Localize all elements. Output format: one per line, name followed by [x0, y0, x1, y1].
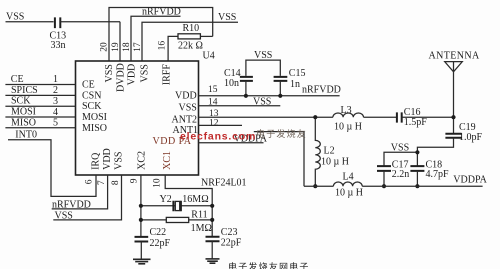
svg-text:10: 10 — [153, 178, 163, 188]
svg-text:nRFVDD: nRFVDD — [52, 199, 91, 210]
svg-text:3: 3 — [53, 96, 58, 107]
node VSS bracket over C17 C18 — [384, 143, 417, 166]
wire pin 14 VSS stub — [199, 105, 281, 107]
node MISO — [11, 117, 58, 128]
node VSS bottom label — [55, 210, 73, 221]
wire MOSI — [5, 116, 75, 118]
svg-text:L3: L3 — [341, 105, 352, 116]
svg-text:elecfans.com: elecfans.com — [180, 131, 256, 143]
svg-text:C15: C15 — [289, 68, 306, 79]
wire pin 19 vertical — [119, 22, 121, 61]
inductor L3 — [333, 105, 364, 133]
ground under C23 — [206, 259, 220, 263]
wire C15 to VDD row — [279, 81, 281, 96]
svg-text:1: 1 — [53, 74, 58, 85]
svg-text:L4: L4 — [343, 172, 354, 183]
svg-text:CE: CE — [11, 74, 24, 85]
svg-text:SCK: SCK — [82, 101, 102, 112]
node VDDPA label right — [453, 175, 487, 186]
svg-text:VSS: VSS — [179, 102, 197, 113]
wire VDDPA rail right of L4 — [362, 185, 482, 187]
capacitor C17 — [377, 159, 409, 180]
svg-text:33n: 33n — [51, 40, 66, 51]
node MOSI — [11, 107, 58, 118]
wire L3 to C16 — [364, 116, 397, 118]
svg-text:10 µ H: 10 µ H — [335, 187, 363, 198]
svg-text:6: 6 — [85, 179, 95, 184]
wire R11 row — [141, 219, 212, 221]
svg-text:VDD: VDD — [175, 90, 197, 101]
svg-text:C14: C14 — [224, 68, 241, 79]
crystal Y2 16MHz — [160, 194, 209, 211]
wire pin 7 to nRFVDD label — [52, 175, 108, 209]
svg-text:16: 16 — [158, 41, 168, 51]
svg-text:10 µ H: 10 µ H — [321, 157, 349, 168]
svg-text:5: 5 — [53, 118, 58, 129]
wire SCK — [5, 105, 75, 107]
op-amp U4 IC body NRF24L01 — [76, 51, 247, 189]
wire C16 to antenna line — [402, 116, 454, 118]
inductor L2 — [315, 117, 349, 186]
svg-text:VSS: VSS — [104, 64, 115, 82]
wire CE — [5, 84, 75, 86]
wire C22 to ground — [140, 242, 142, 259]
svg-text:L2: L2 — [324, 145, 335, 156]
junction dots Y2 row — [139, 204, 143, 208]
svg-text:XC1: XC1 — [162, 151, 173, 170]
svg-text:22pF: 22pF — [150, 238, 171, 249]
svg-text:INT0: INT0 — [15, 129, 37, 140]
svg-text:22k Ω: 22k Ω — [178, 41, 203, 52]
svg-text:ANTENNA: ANTENNA — [429, 50, 481, 61]
node VSS top-left label — [6, 12, 24, 23]
wire C14 to VDD row — [245, 81, 247, 96]
svg-text:U4: U4 — [203, 51, 215, 62]
node VSS bracket over C14 C15 — [246, 50, 280, 76]
svg-text:VSS: VSS — [114, 152, 125, 170]
wire pin 13 ANT2 row — [199, 116, 333, 118]
svg-text:CSN: CSN — [82, 90, 101, 101]
svg-text:VSS: VSS — [6, 12, 24, 23]
svg-text:MISO: MISO — [11, 117, 36, 128]
watermark elecfans.com red — [180, 131, 256, 143]
svg-text:15: 15 — [208, 85, 218, 95]
svg-text:电子发烧友网电子: 电子发烧友网电子 — [228, 261, 310, 269]
svg-text:1MΩ: 1MΩ — [191, 223, 212, 234]
svg-text:C23: C23 — [221, 227, 238, 238]
wire C13 to pin19 — [60, 21, 120, 23]
svg-text:MOSI: MOSI — [82, 112, 107, 123]
wire C17 to rail — [383, 171, 385, 186]
watermark bottom faint — [228, 261, 310, 269]
junction dots R11 row — [139, 218, 143, 222]
capacitor C23 — [206, 227, 242, 249]
wire VDDPA rail left of L4 — [304, 185, 333, 187]
resistor R11 — [166, 210, 212, 235]
node VSS row14 label — [253, 96, 271, 107]
svg-text:9: 9 — [130, 178, 140, 183]
svg-text:VSS: VSS — [254, 50, 272, 61]
watermark chinese gray — [256, 128, 307, 139]
svg-text:1n: 1n — [290, 79, 300, 90]
svg-text:1.5pF: 1.5pF — [404, 117, 428, 128]
wire nRFVDD underline / pin 18 — [131, 16, 181, 61]
node nRFVDD bottom label — [52, 199, 91, 210]
svg-text:20: 20 — [99, 42, 109, 52]
node nRFVDD right label — [302, 85, 341, 96]
wire SPICS — [5, 94, 75, 96]
svg-text:16MΩ: 16MΩ — [182, 194, 208, 205]
wire Y2 row — [141, 205, 212, 207]
capacitor C16 — [397, 107, 427, 128]
svg-text:4.7pF: 4.7pF — [426, 169, 450, 180]
svg-text:DVDD: DVDD — [116, 63, 127, 92]
ground under C22 — [133, 259, 151, 264]
svg-text:VDDPA: VDDPA — [453, 175, 487, 186]
svg-text:17: 17 — [133, 42, 143, 52]
svg-text:R10: R10 — [183, 23, 200, 34]
svg-text:2.2n: 2.2n — [392, 169, 410, 180]
svg-text:IRQ: IRQ — [91, 152, 102, 170]
svg-text:MOSI: MOSI — [11, 107, 36, 118]
wire VSS to C13 — [6, 21, 54, 23]
svg-text:CE: CE — [82, 80, 95, 91]
wire C18 to rail — [416, 171, 418, 186]
svg-text:MISO: MISO — [82, 123, 107, 134]
svg-text:19: 19 — [111, 42, 121, 52]
svg-text:ANT2: ANT2 — [172, 114, 198, 125]
svg-text:12: 12 — [209, 118, 219, 128]
svg-text:nRFVDD: nRFVDD — [302, 85, 341, 96]
svg-text:C22: C22 — [150, 227, 167, 238]
resistor R10 — [178, 23, 213, 52]
wire pin 17 vertical + horizontal to VSS label — [142, 22, 238, 61]
svg-text:4: 4 — [53, 107, 58, 118]
node VSS top-right label — [218, 12, 236, 23]
svg-text:10n: 10n — [224, 78, 239, 89]
wire MISO — [5, 127, 75, 129]
svg-text:R11: R11 — [191, 210, 207, 221]
wire ANT1 segment to L4 rail — [254, 132, 304, 187]
wire pin 9 vertical XC2 — [140, 175, 142, 236]
svg-text:IRFF: IRFF — [162, 64, 173, 86]
wire pin 10 XC1 jog to right branch — [165, 175, 212, 236]
svg-text:VDD: VDD — [102, 148, 113, 170]
svg-text:C16: C16 — [404, 107, 421, 118]
node SPICS — [11, 85, 58, 96]
capacitor C14 — [224, 68, 253, 89]
node CE — [11, 74, 58, 85]
node ANTENNA — [429, 50, 481, 71]
svg-text:SCK: SCK — [11, 96, 31, 107]
capacitor C22 — [135, 227, 171, 249]
node INT0 — [15, 129, 37, 140]
wire antenna vertical — [453, 72, 455, 134]
svg-text:VSS: VSS — [218, 12, 236, 23]
svg-text:VSS: VSS — [55, 210, 73, 221]
wire pin 12 ANT1 stub — [199, 124, 243, 126]
wire pin 8 to VSS label — [53, 175, 121, 220]
svg-text:NRF24L01: NRF24L01 — [201, 178, 247, 189]
wire C23 to ground — [211, 241, 213, 258]
svg-text:Y2: Y2 — [160, 194, 172, 205]
svg-text:XC2: XC2 — [137, 151, 148, 170]
svg-text:10 µ H: 10 µ H — [334, 121, 362, 132]
svg-text:2: 2 — [53, 85, 58, 96]
wire pin 20 vertical + top VSS rail — [109, 8, 213, 62]
capacitor C19 — [445, 122, 482, 143]
wire pin 15 VDD row to nRFVDD — [199, 95, 340, 97]
wire INT0 down to pin 6 — [8, 140, 96, 197]
capacitor C13 — [50, 17, 67, 51]
svg-text:VSS: VSS — [253, 96, 271, 107]
node VDDPA label on pin 11 stub — [234, 134, 268, 145]
node SCK — [11, 96, 58, 107]
svg-text:22pF: 22pF — [221, 237, 242, 248]
svg-text:VDD: VDD — [127, 64, 138, 86]
capacitor C18 — [410, 159, 449, 180]
svg-text:18: 18 — [122, 42, 132, 52]
svg-text:VSS: VSS — [140, 64, 151, 82]
svg-text:8: 8 — [111, 180, 121, 185]
svg-text:1.0pF: 1.0pF — [459, 132, 483, 143]
svg-text:电子发烧友: 电子发烧友 — [256, 128, 307, 139]
wire C19 bottom to VSS bracket — [417, 138, 453, 153]
inductor L4 — [333, 172, 363, 199]
capacitor C15 — [274, 68, 306, 90]
svg-text:7: 7 — [97, 180, 107, 185]
svg-text:SPICS: SPICS — [11, 85, 38, 96]
node nRFVDD top label — [142, 7, 181, 18]
wire pin 11 VDD PA stub — [199, 142, 264, 144]
wire pin 16 vertical — [168, 36, 178, 61]
